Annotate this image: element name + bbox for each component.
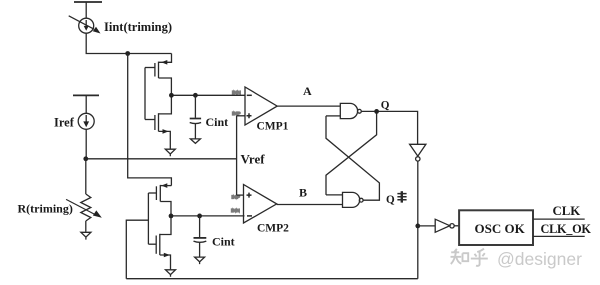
current source Iint	[69, 16, 101, 34]
transistor M1 upper charge switch	[145, 54, 172, 96]
transistor M4 lower discharge switch	[148, 216, 171, 270]
svg-text:INP: INP	[232, 195, 241, 201]
wire lower switch feed arrow	[160, 183, 171, 188]
wire B	[277, 204, 343, 206]
gate rail lower pair	[147, 193, 149, 244]
node INT2 wire to CMP2	[171, 215, 245, 217]
ground under Cint lower	[195, 257, 205, 264]
junction Cint1 tap	[193, 93, 198, 98]
comparator CMP2	[244, 185, 277, 224]
NAND G2 input stub	[326, 194, 343, 196]
ground under M4	[166, 270, 176, 277]
supply rail (Iref branch)	[73, 95, 99, 113]
svg-text:Vref: Vref	[241, 152, 266, 167]
svg-text:A: A	[303, 84, 312, 98]
cross coupling Qbar to G1	[326, 116, 379, 200]
svg-text:OSC OK: OSC OK	[475, 221, 526, 236]
svg-text:CMP1: CMP1	[257, 121, 289, 133]
capacitor Cint lower	[194, 216, 207, 257]
wire Iref to Vref node	[85, 129, 87, 159]
watermark zhihu designer	[451, 249, 488, 266]
output CLK_OK line	[533, 235, 585, 237]
ground under Cint upper	[190, 139, 200, 144]
svg-text:Cint: Cint	[206, 115, 229, 129]
wire INV1 output down to feedback rail	[417, 161, 419, 279]
wire Iint source to upper switch pair	[86, 33, 171, 53]
Vref net	[86, 116, 245, 195]
svg-text:Iref: Iref	[54, 116, 75, 130]
svg-text:CMP2: CMP2	[257, 223, 289, 235]
junction inverter tap	[415, 224, 420, 229]
ground under M2	[165, 149, 175, 156]
svg-text:Iint(triming): Iint(triming)	[104, 20, 172, 34]
wire Q	[361, 111, 417, 144]
wire to INV2 input	[418, 225, 435, 227]
NAND G1 input stub	[326, 115, 340, 117]
inverter INV1 down	[410, 144, 426, 161]
node INT1 wire to CMP1	[171, 94, 244, 96]
ground under R	[81, 232, 91, 239]
feedback bottom rail	[126, 278, 418, 280]
svg-text:R(triming): R(triming)	[18, 202, 73, 216]
svg-text:Q: Q	[381, 100, 390, 112]
svg-text:@designer: @designer	[497, 249, 582, 269]
svg-text:Cint: Cint	[212, 234, 235, 248]
block OSC OK	[459, 210, 533, 245]
junction Iint node	[125, 51, 130, 56]
svg-text:Q: Q	[386, 194, 395, 206]
inverter INV2	[435, 219, 454, 232]
gate rail upper pair	[144, 68, 146, 120]
current source Iref	[78, 113, 94, 129]
wire Iint node down to lower switch pair	[128, 54, 172, 186]
junction Q	[374, 109, 379, 114]
wire A	[277, 105, 340, 107]
junction M1/M2 drain node	[169, 93, 174, 98]
transistor M3 lower charge switch	[148, 185, 171, 216]
junction M3/M4 drain node	[169, 214, 174, 219]
capacitor Cint upper	[190, 95, 201, 138]
svg-text:B: B	[299, 186, 307, 200]
NAND gate G2	[343, 192, 364, 207]
wire INV2 to OSC OK	[454, 225, 459, 227]
svg-text:CLK_OK: CLK_OK	[541, 222, 592, 236]
svg-text:INN: INN	[231, 208, 240, 214]
svg-text:INN: INN	[232, 90, 241, 96]
resistor R(triming)	[66, 159, 102, 232]
transistor M2 upper discharge switch	[145, 95, 171, 149]
comparator CMP1	[245, 87, 277, 125]
svg-text:CLK: CLK	[553, 204, 581, 218]
wire feedback to lower gates	[126, 220, 148, 279]
junction Vref node	[83, 156, 88, 161]
supply rail top (Iint branch)	[74, 2, 102, 18]
output CLK line	[533, 218, 585, 220]
junction Cint2 tap	[197, 214, 202, 219]
NAND gate G1	[340, 103, 361, 118]
cross coupling Q to G2	[326, 111, 377, 194]
